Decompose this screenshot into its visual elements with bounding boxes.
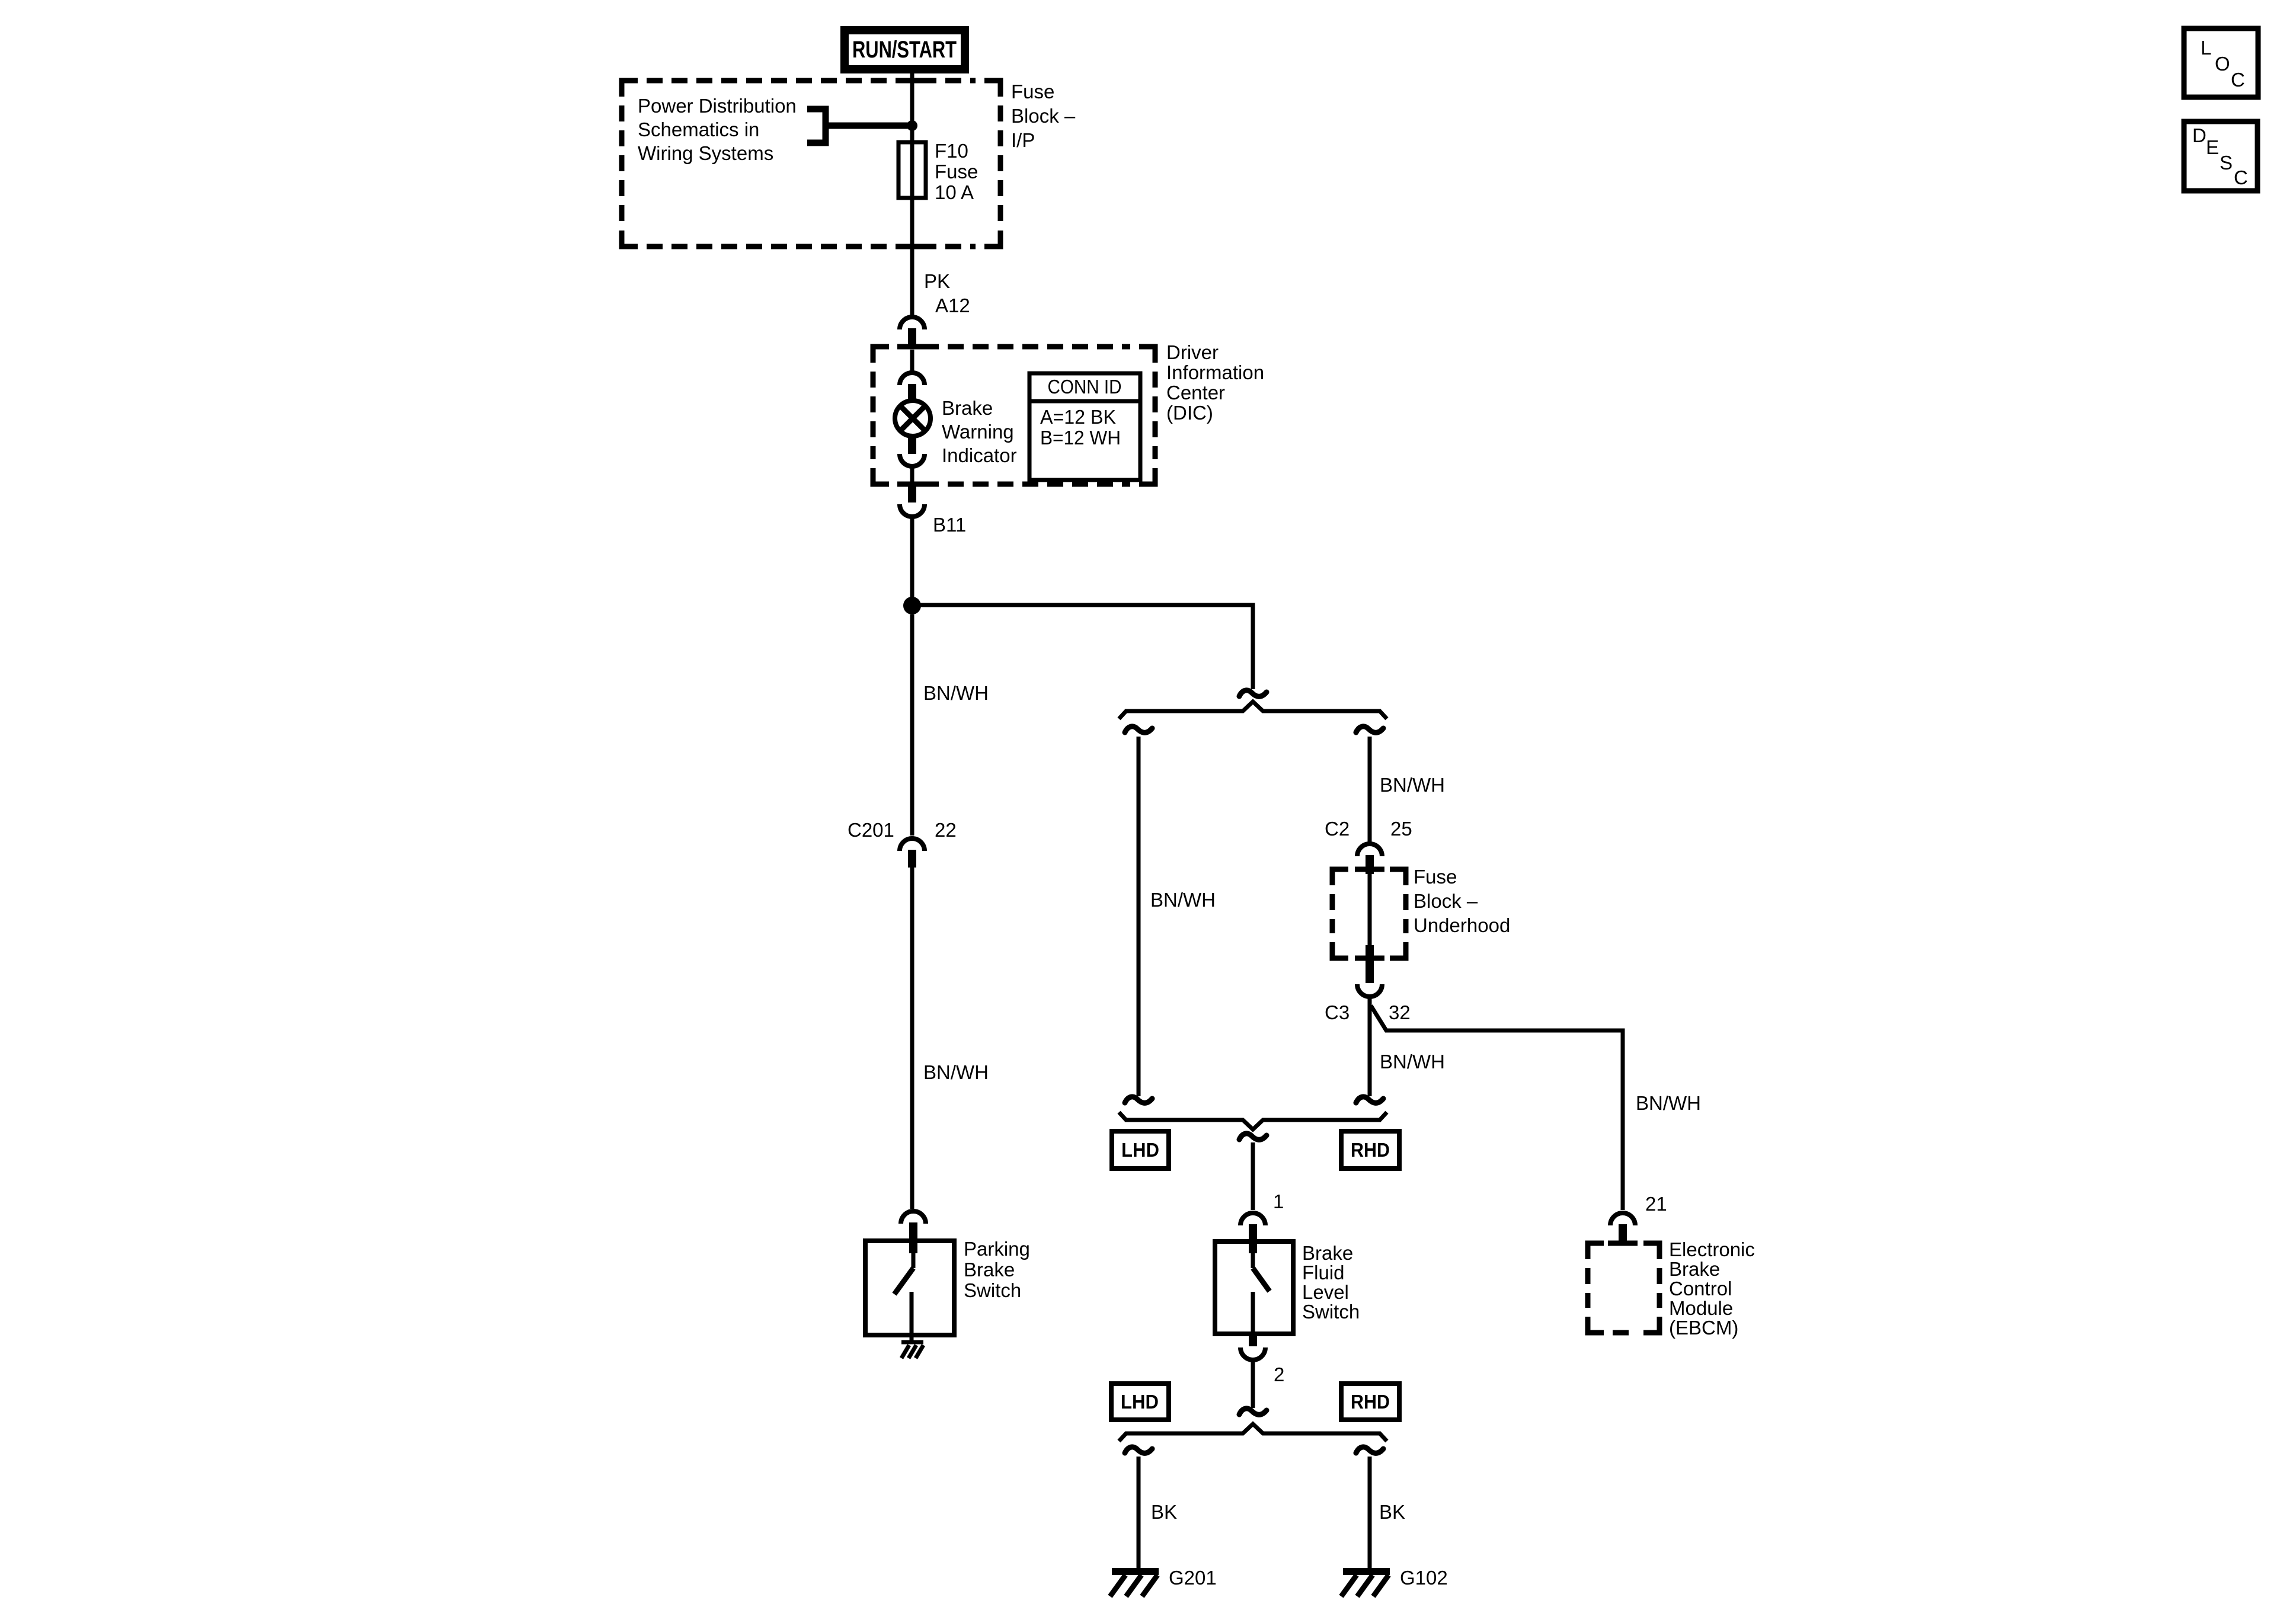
wire: right ground branch	[1368, 1457, 1372, 1571]
wire: splice to center harness branch	[912, 605, 1253, 689]
svg-text:(EBCM): (EBCM)	[1669, 1317, 1738, 1339]
connector: DIC terminal A12 (pin)	[908, 328, 916, 347]
brace: split to LHD/RHD grounds	[1119, 1424, 1387, 1441]
svg-text:22: 22	[935, 819, 957, 841]
brace: split to LHD/RHD harness options	[1119, 702, 1387, 719]
svg-text:Block –: Block –	[1414, 890, 1478, 912]
svg-text:RHD: RHD	[1351, 1391, 1390, 1413]
svg-text:Brake: Brake	[1669, 1258, 1720, 1280]
ground: parking brake switch internal ground	[901, 1342, 923, 1358]
connector: C201 terminal 22 (receptacle)	[900, 838, 925, 851]
connector: DIC terminal B11 (receptacle)	[900, 504, 925, 517]
tag: LHD option (upper)	[1112, 1131, 1169, 1169]
connector: parking brake switch terminal (pin)	[909, 1222, 917, 1253]
tag: DESC reference box	[2184, 121, 2257, 191]
svg-text:C: C	[2234, 167, 2248, 188]
svg-text:Electronic: Electronic	[1669, 1238, 1755, 1260]
brace: merge of LHD/RHD options	[1119, 1112, 1387, 1129]
tag: LOC reference box	[2184, 28, 2258, 97]
break: harness continuation above option brace	[1239, 690, 1267, 696]
svg-text:Fuse: Fuse	[1011, 81, 1054, 103]
lamp: Brake Warning Indicator	[895, 401, 930, 436]
wire: switch lower contact	[1251, 1292, 1255, 1334]
svg-text:Driver: Driver	[1166, 341, 1219, 363]
dashed box: Fuse Block - Underhood	[1332, 869, 1406, 958]
wire: merge brace to brake fluid level switch	[1251, 1142, 1255, 1210]
svg-text:CONN ID: CONN ID	[1048, 376, 1122, 398]
svg-text:F10: F10	[935, 140, 968, 162]
break: right ground wire start	[1356, 1447, 1383, 1453]
svg-text:BN/WH: BN/WH	[1380, 774, 1445, 796]
box: Parking Brake Switch	[865, 1241, 954, 1335]
wire: indicator to DIC edge	[910, 468, 914, 484]
svg-text:Warning: Warning	[942, 421, 1014, 443]
svg-text:E: E	[2206, 136, 2219, 158]
svg-text:Fuse: Fuse	[1414, 866, 1457, 888]
svg-text:Block –: Block –	[1011, 105, 1076, 127]
bracket: reference to power distribution schematics	[807, 109, 826, 143]
connector: indicator socket bottom (receptacle)	[900, 454, 925, 466]
tag: RHD option (upper)	[1341, 1131, 1399, 1169]
svg-text:Indicator: Indicator	[942, 444, 1017, 466]
connector: EBCM terminal 21 (pin)	[1619, 1224, 1627, 1243]
svg-text:Level: Level	[1302, 1281, 1349, 1303]
wire: right option branch (RHD) to C2	[1368, 737, 1372, 842]
svg-text:G201: G201	[1169, 1567, 1217, 1589]
svg-text:(DIC): (DIC)	[1166, 402, 1213, 424]
box: Brake Fluid Level Switch	[1215, 1241, 1293, 1334]
break: left option wire start	[1125, 726, 1152, 732]
svg-text:Center: Center	[1166, 382, 1225, 404]
svg-text:Underhood: Underhood	[1414, 914, 1510, 936]
dashed box: Driver Information Center (DIC)	[873, 347, 1155, 484]
wire: C201 down to parking brake switch	[910, 868, 914, 1209]
svg-text:BK: BK	[1379, 1501, 1405, 1523]
svg-text:LHD: LHD	[1121, 1391, 1159, 1413]
svg-text:C3: C3	[1325, 1001, 1350, 1023]
ground: G201	[1110, 1571, 1159, 1596]
svg-text:BN/WH: BN/WH	[1380, 1051, 1445, 1073]
svg-text:A12: A12	[935, 295, 970, 316]
svg-text:RHD: RHD	[1351, 1139, 1390, 1161]
svg-text:L: L	[2201, 37, 2211, 59]
box: RUN/START power feed	[840, 26, 969, 73]
break: right option wire end	[1356, 1097, 1383, 1103]
svg-text:2: 2	[1274, 1363, 1284, 1385]
connector: brake fluid level switch terminal 2 (pin)	[1249, 1334, 1257, 1346]
connector: C201 terminal 22 (pin)	[908, 850, 916, 868]
svg-text:C: C	[2231, 69, 2245, 91]
dashed box: Fuse Block - I/P	[622, 81, 1000, 247]
svg-text:I/P: I/P	[1011, 129, 1035, 151]
wire: inside DIC from A12 to indicator socket	[910, 350, 914, 372]
svg-text:Wiring Systems: Wiring Systems	[638, 142, 773, 164]
tag: RHD option (lower)	[1341, 1384, 1399, 1420]
wire: left option branch (LHD)	[1137, 737, 1141, 1096]
svg-text:Fuse: Fuse	[935, 161, 978, 183]
wire: B11 down to splice	[910, 518, 914, 606]
svg-text:1: 1	[1273, 1190, 1284, 1212]
svg-text:Schematics in: Schematics in	[638, 119, 759, 140]
svg-text:Power Distribution: Power Distribution	[638, 95, 797, 117]
wire: splice down to C201	[910, 614, 914, 836]
connector: fuse block underhood C3 terminal 32 (receptacle)	[1357, 984, 1382, 997]
svg-text:10 A: 10 A	[935, 181, 974, 203]
wire: bracket to fuse node	[826, 123, 912, 129]
connector: DIC terminal A12 (receptacle)	[900, 317, 925, 329]
svg-text:Parking: Parking	[964, 1238, 1030, 1260]
dashed box: Electronic Brake Control Module (EBCM)	[1588, 1243, 1659, 1333]
svg-text:O: O	[2215, 53, 2230, 75]
break: harness continuation below merge brace	[1239, 1134, 1267, 1140]
wire: left ground branch	[1137, 1457, 1141, 1571]
svg-text:PK: PK	[924, 270, 950, 292]
connector: indicator socket (receptacle)	[900, 373, 925, 385]
wire: C3 branch to EBCM	[1371, 1006, 1623, 1210]
connector: brake fluid level switch terminal 1 (pin)	[1249, 1224, 1257, 1253]
svg-text:G102: G102	[1400, 1567, 1448, 1589]
wire: C3 down to merge brace	[1368, 998, 1372, 1096]
wire: switch lower contact to ground	[910, 1292, 914, 1341]
switch blade: parking brake switch	[912, 1253, 916, 1268]
svg-text:25: 25	[1390, 818, 1412, 840]
wire: RUN/START feed down through fuse block	[910, 71, 914, 315]
svg-text:Control: Control	[1669, 1278, 1732, 1299]
connector: parking brake switch terminal (receptacle)	[901, 1211, 926, 1224]
svg-text:Switch: Switch	[964, 1279, 1021, 1301]
svg-text:Brake: Brake	[1302, 1242, 1353, 1264]
svg-text:BN/WH: BN/WH	[923, 1061, 989, 1083]
break: left option wire end	[1125, 1097, 1152, 1103]
tag: LHD option (lower)	[1111, 1384, 1169, 1420]
svg-text:S: S	[2220, 152, 2233, 174]
ground: G102	[1341, 1571, 1390, 1596]
wire: terminal 2 down to ground split	[1251, 1361, 1255, 1408]
svg-text:Module: Module	[1669, 1297, 1733, 1319]
break: left ground wire start	[1125, 1447, 1152, 1453]
svg-text:C2: C2	[1325, 818, 1350, 840]
connector: fuse block underhood C2 terminal 25 (pin)	[1366, 855, 1374, 874]
svg-text:BN/WH: BN/WH	[1636, 1092, 1701, 1114]
connector: fuse block underhood C2 terminal 25 (receptacle)	[1357, 844, 1382, 856]
break: right option wire start	[1356, 726, 1383, 732]
svg-text:B=12 WH: B=12 WH	[1040, 427, 1121, 449]
break: harness continuation above ground brace	[1239, 1409, 1267, 1414]
connector: brake fluid level switch terminal 2 (receptacle)	[1240, 1347, 1265, 1360]
connector: brake fluid level switch terminal 1 (receptacle)	[1240, 1213, 1265, 1225]
node: splice junction below B11	[903, 597, 921, 614]
svg-text:Brake: Brake	[964, 1259, 1015, 1281]
connector: indicator socket bottom (pin)	[908, 436, 916, 454]
svg-text:Information: Information	[1166, 361, 1264, 383]
table: CONN ID A=12 BK B=12 WH	[1029, 373, 1140, 480]
svg-text:A=12 BK: A=12 BK	[1040, 406, 1116, 428]
svg-text:Fluid: Fluid	[1302, 1262, 1345, 1283]
connector: EBCM terminal 21 (receptacle)	[1610, 1213, 1635, 1225]
svg-text:B11: B11	[933, 514, 966, 536]
svg-text:RUN/START: RUN/START	[852, 37, 957, 63]
connector: fuse block underhood C3 terminal 32 (pin)	[1366, 945, 1374, 983]
svg-text:Switch: Switch	[1302, 1301, 1360, 1323]
fuse F10 10 A	[898, 142, 926, 198]
connector: DIC terminal B11 (pin)	[908, 484, 916, 502]
wire: inside fuse block underhood	[1368, 874, 1372, 945]
svg-text:LHD: LHD	[1121, 1139, 1159, 1161]
svg-text:21: 21	[1645, 1193, 1667, 1215]
svg-text:BN/WH: BN/WH	[1150, 889, 1216, 911]
svg-text:D: D	[2192, 124, 2207, 146]
connector: indicator socket (pin)	[908, 384, 916, 402]
svg-text:C201: C201	[848, 819, 894, 841]
node: junction at fuse F10 input	[907, 120, 917, 131]
svg-text:BK: BK	[1151, 1501, 1177, 1523]
svg-text:BN/WH: BN/WH	[923, 682, 989, 704]
svg-text:Brake: Brake	[942, 397, 993, 419]
svg-text:32: 32	[1389, 1001, 1411, 1023]
switch blade: brake fluid level switch	[1251, 1253, 1255, 1268]
